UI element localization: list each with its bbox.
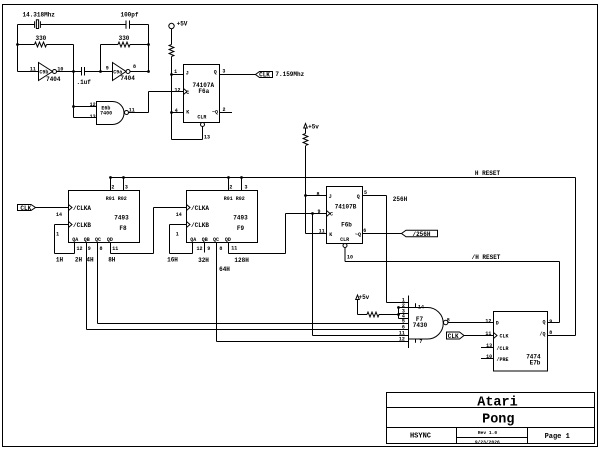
wire: F7 pins 2,3,4 tie bracket xyxy=(399,308,409,319)
junction: E6b input tap xyxy=(72,105,75,108)
wire: F9 QD (128H) to F6b C xyxy=(229,214,327,254)
power symbol +5v (F6b) xyxy=(304,124,308,134)
svg-text:16H: 16H xyxy=(167,257,178,264)
svg-text:256H: 256H xyxy=(393,196,408,203)
junction: 128H tap xyxy=(311,212,314,215)
svg-text:3: 3 xyxy=(125,185,128,191)
svg-text:C: C xyxy=(330,211,333,217)
node D vertical (C9a output feedback) xyxy=(148,25,150,72)
capacitor C3 .1uf xyxy=(82,67,113,76)
svg-text:F6b: F6b xyxy=(341,221,352,228)
svg-text:12: 12 xyxy=(196,246,202,252)
svg-text:9: 9 xyxy=(88,246,91,252)
wire: F9 reset pins 2,3 xyxy=(229,178,242,191)
svg-text:14: 14 xyxy=(176,212,182,218)
svg-text:6: 6 xyxy=(363,228,366,234)
svg-text:/Q: /Q xyxy=(539,332,545,338)
svg-text:CLR: CLR xyxy=(340,237,349,243)
svg-text:/256H: /256H xyxy=(412,231,430,238)
svg-text:Rev 1.0: Rev 1.0 xyxy=(478,430,498,436)
svg-text:/CLKB: /CLKB xyxy=(191,222,209,229)
svg-text:Q: Q xyxy=(357,194,360,200)
svg-text:QB: QB xyxy=(202,237,208,243)
svg-text:CLK: CLK xyxy=(500,334,509,340)
wire: F6b K input xyxy=(306,233,327,235)
svg-text:10: 10 xyxy=(57,67,63,73)
wire: F6b CLR to /H RESET line xyxy=(345,248,560,323)
svg-text:32H: 32H xyxy=(198,257,209,264)
svg-text:2: 2 xyxy=(222,107,225,113)
capacitor C2 100pf xyxy=(126,21,130,29)
svg-text:F8: F8 xyxy=(119,225,127,232)
svg-text:12: 12 xyxy=(399,337,405,343)
svg-text:/CLKA: /CLKA xyxy=(73,205,91,212)
inverter C9b 7404 xyxy=(18,63,82,81)
junction: F6b J tie xyxy=(304,194,307,197)
svg-text:+5v: +5v xyxy=(358,294,369,301)
svg-text:1: 1 xyxy=(174,69,177,75)
svg-text:11: 11 xyxy=(319,229,325,235)
crystal Y1 14.318Mhz xyxy=(35,20,41,29)
svg-text:13: 13 xyxy=(90,114,96,120)
junction: crystal net / R1 xyxy=(16,43,19,46)
svg-text:J: J xyxy=(186,70,189,76)
svg-text:Pong: Pong xyxy=(482,413,514,428)
svg-text:F9: F9 xyxy=(237,225,245,232)
resistor R3 (F6a pullup) xyxy=(169,45,174,140)
svg-text:11: 11 xyxy=(30,66,36,72)
svg-text:9: 9 xyxy=(317,209,320,215)
svg-text:14.318Mhz: 14.318Mhz xyxy=(22,11,55,18)
svg-text:+5V: +5V xyxy=(177,20,188,27)
wire: F6a K input xyxy=(172,112,184,114)
net tag CLK (E7b clock) xyxy=(447,332,494,339)
svg-text:4H: 4H xyxy=(86,257,94,264)
svg-text:7.159Mhz: 7.159Mhz xyxy=(275,71,304,78)
svg-text:QD: QD xyxy=(107,237,113,243)
wire: F8 QA to CLKB feedback (1H) xyxy=(55,225,75,254)
svg-text:9/23/2026: 9/23/2026 xyxy=(475,439,500,445)
junction: F6a K tie xyxy=(170,111,173,114)
svg-text:QA: QA xyxy=(190,237,196,243)
svg-text:2: 2 xyxy=(229,185,232,191)
svg-text:330: 330 xyxy=(119,35,130,42)
svg-text:F6a: F6a xyxy=(198,88,209,95)
svg-text:QB: QB xyxy=(84,237,90,243)
wire: F9 QA to CLKB feedback (16H) xyxy=(170,225,193,254)
nand gate F7 7430 xyxy=(409,296,448,349)
counter U2 7493 F8 xyxy=(69,191,140,243)
svg-text:3: 3 xyxy=(222,69,225,75)
svg-text:C: C xyxy=(186,90,189,96)
svg-text:13: 13 xyxy=(486,343,492,349)
svg-text:1: 1 xyxy=(56,231,59,237)
svg-text:/CLKA: /CLKA xyxy=(191,205,209,212)
wire: F9 QC (64H) to F7 pin 12 xyxy=(217,243,409,342)
flip-flop U4 74107B F6b xyxy=(327,187,363,248)
svg-text:14: 14 xyxy=(418,304,424,310)
resistor R4 (F6b pullup) xyxy=(303,134,308,234)
wire: F6b J input xyxy=(306,195,327,197)
junction: C9b output node xyxy=(72,70,75,73)
svg-text:Q: Q xyxy=(542,320,545,326)
svg-text:8: 8 xyxy=(549,330,552,336)
svg-text:11: 11 xyxy=(112,246,118,252)
svg-text:330: 330 xyxy=(35,35,46,42)
svg-text:R01 R02: R01 R02 xyxy=(106,196,127,202)
svg-text:Q: Q xyxy=(214,70,217,76)
svg-text:100pf: 100pf xyxy=(120,11,138,18)
svg-text:9: 9 xyxy=(106,65,109,71)
svg-text:12: 12 xyxy=(90,102,96,108)
svg-text:H RESET: H RESET xyxy=(475,170,501,177)
svg-text:CLR: CLR xyxy=(197,115,206,121)
svg-text:7: 7 xyxy=(419,339,422,345)
svg-text:7430: 7430 xyxy=(413,322,428,329)
svg-text:8: 8 xyxy=(219,246,222,252)
svg-text:~Q: ~Q xyxy=(212,109,218,115)
svg-text:1H: 1H xyxy=(56,257,64,264)
net tag /256H xyxy=(402,230,438,237)
svg-text:/PRE: /PRE xyxy=(497,357,509,363)
svg-text:11: 11 xyxy=(231,245,237,251)
svg-text:7493: 7493 xyxy=(114,214,129,221)
junction: H RESET / F8 pin 2 xyxy=(109,176,112,179)
svg-text:C9b: C9b xyxy=(39,69,48,75)
flip-flop U5 7474 E7b xyxy=(494,312,548,372)
wire: F6a J input xyxy=(172,74,184,76)
junction: H RESET / F9 pin 2 xyxy=(227,176,230,179)
wire: crystal net left vertical (node A) xyxy=(17,25,19,72)
wire: E7b Q output xyxy=(548,322,560,324)
svg-text:/H RESET: /H RESET xyxy=(472,254,501,261)
svg-text:8H: 8H xyxy=(108,257,116,264)
wire: F8 reset pins 2,3 xyxy=(111,178,124,191)
svg-text:.1uf: .1uf xyxy=(76,79,91,86)
svg-text:Atari: Atari xyxy=(477,396,518,411)
svg-text:~Q: ~Q xyxy=(355,232,361,238)
svg-text:128H: 128H xyxy=(234,257,249,264)
wire: F6b ~Q to /256H tag xyxy=(363,233,402,235)
power symbol +5v (F7) xyxy=(356,295,367,315)
junction: C9a input node xyxy=(99,70,102,73)
junction: H RESET / F8 pin 3 xyxy=(122,176,125,179)
svg-text:12: 12 xyxy=(76,246,82,252)
wire: E6b output to F6a C input xyxy=(129,92,184,113)
net tag CLK (input, left) xyxy=(18,205,69,211)
counter U3 7493 F9 xyxy=(187,191,258,243)
svg-text:K: K xyxy=(329,232,332,238)
wire: F6a CLR tie xyxy=(172,127,203,140)
svg-text:10: 10 xyxy=(347,254,353,260)
wire: F6a ~Q stub pin 2 xyxy=(220,112,233,114)
svg-text:7404: 7404 xyxy=(46,76,61,83)
svg-text:64H: 64H xyxy=(219,266,230,273)
junction: C9a output node xyxy=(147,70,150,73)
wire: E7b /Q output to H RESET xyxy=(548,335,576,337)
svg-text:9: 9 xyxy=(207,246,210,252)
svg-text:CLK: CLK xyxy=(259,71,270,78)
wire: F6b Q (256H) to F7 pin 1 xyxy=(363,196,409,303)
svg-text:R01 R02: R01 R02 xyxy=(224,196,245,202)
svg-text:9: 9 xyxy=(549,319,552,325)
svg-text:7400: 7400 xyxy=(100,110,112,116)
resistor R5 (F7 pullup) xyxy=(367,312,399,317)
title block outline xyxy=(387,393,595,444)
nand gate E6b 7400 xyxy=(97,102,129,125)
svg-text:CLK: CLK xyxy=(448,333,459,340)
svg-text:QA: QA xyxy=(72,237,78,243)
junction: F7 bracket / R5 xyxy=(397,313,400,316)
net tag CLK (7.159Mhz output) xyxy=(256,72,273,78)
svg-text:8: 8 xyxy=(133,64,136,70)
wire: F7 output to E7b D xyxy=(448,322,494,324)
svg-text:12: 12 xyxy=(174,87,180,93)
svg-text:Page 1: Page 1 xyxy=(545,433,570,441)
svg-text:E7b: E7b xyxy=(530,360,541,367)
resistor R1 330 xyxy=(18,42,74,47)
svg-text:/CLR: /CLR xyxy=(497,346,509,352)
flip-flop U1 74107A F6a xyxy=(184,65,220,127)
svg-text:2: 2 xyxy=(111,185,114,191)
svg-text:14: 14 xyxy=(56,212,62,218)
svg-text:74107B: 74107B xyxy=(335,203,357,210)
svg-text:4: 4 xyxy=(175,108,178,114)
svg-text:8: 8 xyxy=(99,246,102,252)
wire: E7b /PRE stub pin 10 xyxy=(481,358,494,360)
wire: F8 QB (2H) to F7 pin 6 xyxy=(87,243,409,330)
svg-text:QD: QD xyxy=(225,237,231,243)
wire: F8 QC (4H) to F7 pin 5 xyxy=(98,243,409,324)
wire: oscillator top net xyxy=(18,24,149,26)
svg-text:2H: 2H xyxy=(75,257,83,264)
node C vertical (C9a input) xyxy=(100,45,102,72)
wire: E7b /CLR stub pin 13 xyxy=(481,347,494,349)
svg-text:D: D xyxy=(496,321,499,327)
junction: R2 right / node D xyxy=(147,43,150,46)
junction: F7 bracket top xyxy=(397,306,400,309)
svg-text:/CLKB: /CLKB xyxy=(73,222,91,229)
wire: 128H tap to F7 pin 11 xyxy=(313,214,409,336)
wire: F9 QB stub (32H) xyxy=(204,243,206,253)
svg-text:HSYNC: HSYNC xyxy=(410,432,431,440)
svg-text:CLK: CLK xyxy=(20,205,31,212)
svg-text:11: 11 xyxy=(485,331,491,337)
junction: F6a J tie xyxy=(170,73,173,76)
svg-text:12: 12 xyxy=(485,319,491,325)
svg-text:+5v: +5v xyxy=(308,124,319,131)
svg-text:10: 10 xyxy=(486,354,492,360)
resistor R2 330 xyxy=(101,42,149,47)
svg-text:3: 3 xyxy=(244,185,247,191)
inverter C9a 7404 xyxy=(113,63,149,81)
svg-text:11: 11 xyxy=(129,107,135,113)
svg-text:8: 8 xyxy=(316,192,319,198)
svg-text:13: 13 xyxy=(204,135,210,141)
svg-text:7493: 7493 xyxy=(233,214,248,221)
svg-text:K: K xyxy=(186,109,189,115)
svg-text:8: 8 xyxy=(447,318,450,324)
wire: H RESET line xyxy=(111,178,576,336)
svg-text:1: 1 xyxy=(176,231,179,237)
svg-text:7404: 7404 xyxy=(120,75,135,82)
svg-text:QC: QC xyxy=(95,237,101,243)
svg-text:QC: QC xyxy=(213,237,219,243)
wire: F8 QD (8H) to F9 CLKA xyxy=(111,208,187,254)
svg-text:5: 5 xyxy=(364,190,367,196)
power port +5V (top) xyxy=(169,23,174,44)
node B vertical (C9b output to E6b inputs) xyxy=(73,45,75,118)
wire: F6a Q output to CLK tag xyxy=(220,74,256,76)
svg-text:J: J xyxy=(329,194,332,200)
junction: H RESET / F9 pin 3 xyxy=(240,176,243,179)
wire: E6b input wires xyxy=(74,107,97,118)
